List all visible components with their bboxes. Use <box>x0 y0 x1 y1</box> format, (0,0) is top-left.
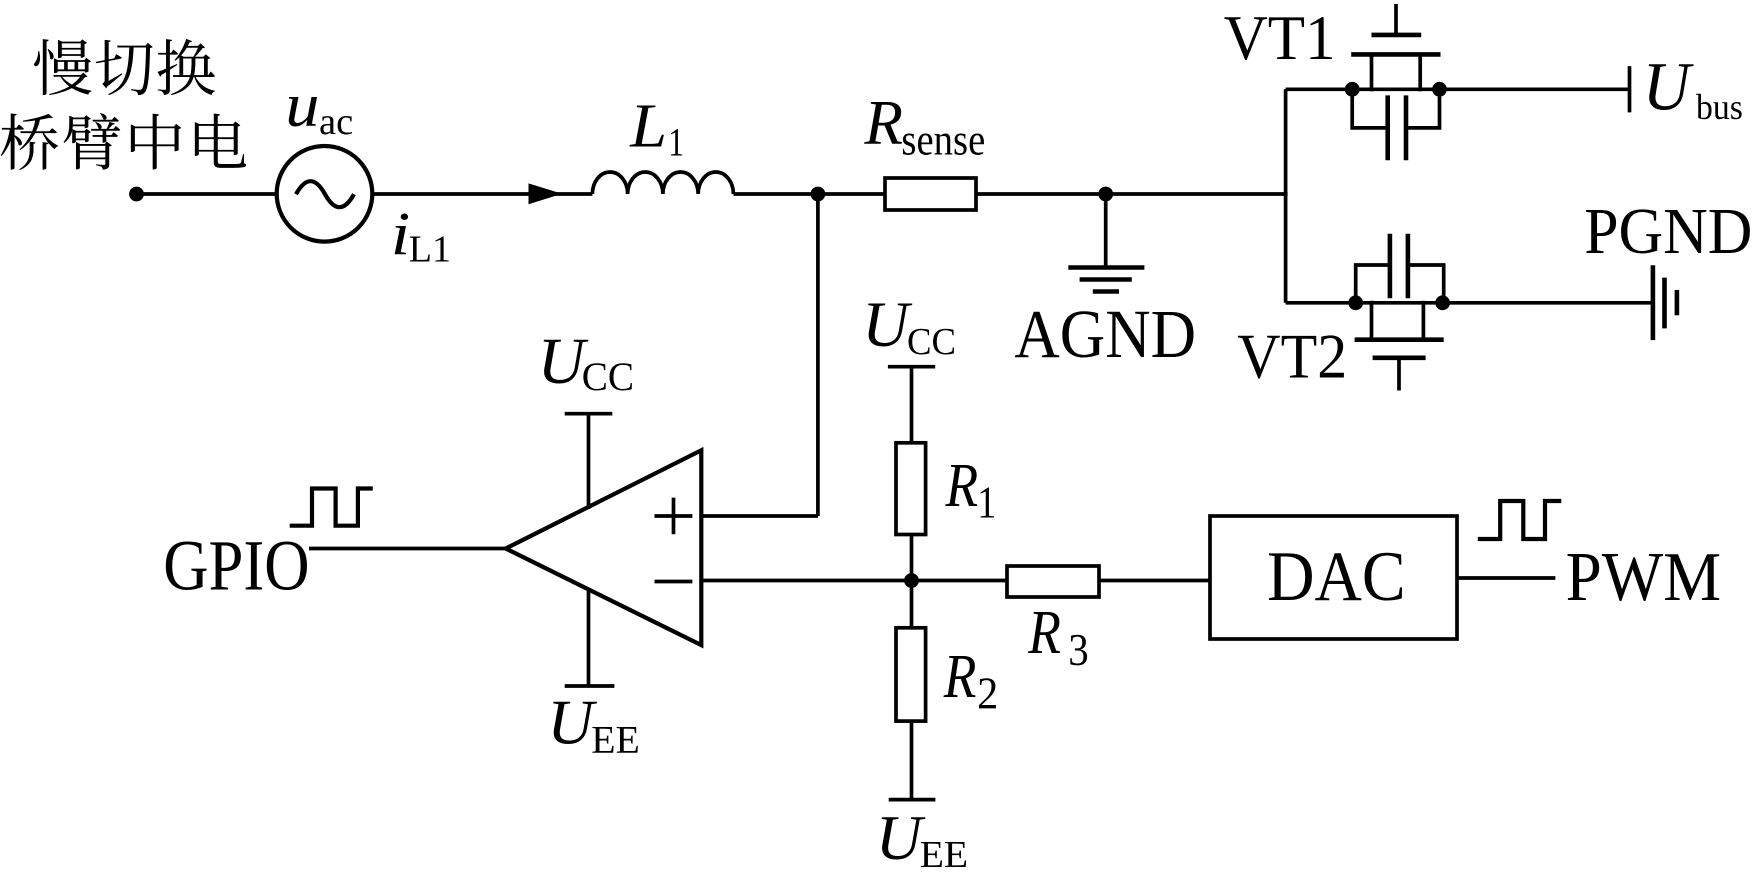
wire minus input <box>701 579 1008 583</box>
node VT2 drain dot <box>1348 295 1363 310</box>
transistor VT1 gate bar <box>1372 33 1422 38</box>
transistor VT1 gate lead <box>1394 4 1398 35</box>
op-amp comparator triangle <box>506 450 702 645</box>
svg-text:sense: sense <box>901 115 985 164</box>
svg-text:L: L <box>629 90 667 160</box>
ground AGND symbol <box>1068 268 1144 292</box>
node VT1 drain dot <box>1432 82 1447 97</box>
wire DAC output to PWM <box>1457 576 1555 580</box>
wire R3 to DAC <box>1099 579 1210 583</box>
wire node B down to AGND <box>1104 194 1108 268</box>
resistor R1 <box>896 443 926 535</box>
svg-text:3: 3 <box>1068 625 1088 676</box>
resistor R2 <box>896 628 926 721</box>
wire Rsense to bridge trunk <box>976 192 1288 196</box>
transistor VT2 source lead <box>1422 301 1426 340</box>
label Ucc op-amp <box>538 326 589 398</box>
svg-text:i: i <box>391 200 410 268</box>
svg-text:EE: EE <box>591 718 640 762</box>
wire bridge trunk vertical <box>1284 89 1288 302</box>
wire R1 to node C <box>910 535 914 628</box>
wire input to source <box>137 192 278 196</box>
svg-text:AGND: AGND <box>1014 296 1196 372</box>
svg-text:DAC: DAC <box>1267 537 1405 616</box>
label VT2 <box>1237 322 1347 392</box>
wire source to inductor <box>372 192 592 196</box>
node B junction dot <box>1098 187 1113 202</box>
label PGND <box>1584 194 1752 267</box>
transistor VT2 drain lead <box>1370 301 1374 340</box>
wire VT2 rail <box>1286 301 1652 305</box>
svg-text:R: R <box>1027 597 1061 667</box>
wire plus input <box>701 514 818 518</box>
transistor VT2 channel bar <box>1355 337 1444 342</box>
label L1 <box>629 90 667 160</box>
svg-text:CC: CC <box>582 355 634 399</box>
Ucc divider supply bar <box>888 365 935 369</box>
wire R2 to Uee bar <box>910 721 914 800</box>
transistor VT1 channel bar <box>1351 52 1440 57</box>
title char 换 <box>158 39 215 95</box>
label Ucc divider <box>862 289 913 360</box>
node input terminal dot <box>129 187 144 202</box>
resistor R3 <box>1007 566 1099 597</box>
Uee divider supply bar <box>889 798 936 802</box>
svg-text:GPIO: GPIO <box>163 526 309 606</box>
node VT1 source dot <box>1345 82 1360 97</box>
svg-text:1: 1 <box>668 120 684 164</box>
capacitor VT2 right plate <box>1406 234 1411 299</box>
title char 切 <box>96 40 153 95</box>
svg-text:CC: CC <box>907 320 956 363</box>
transistor VT2 gate bar <box>1373 355 1426 360</box>
resistor Rsense <box>885 178 976 210</box>
svg-text:U: U <box>1643 48 1695 125</box>
wire inductor to Rsense <box>733 192 886 196</box>
ground PGND symbol <box>1653 265 1677 340</box>
op-amp Uee supply lead <box>587 590 591 687</box>
capacitor VT2 left plate <box>1388 234 1393 299</box>
svg-text:L1: L1 <box>409 229 451 271</box>
svg-text:2: 2 <box>977 668 998 719</box>
PWM square wave symbol <box>1478 501 1562 539</box>
capacitor VT2 parasitic left connection <box>1356 265 1389 303</box>
inductor L1 <box>592 172 733 194</box>
current arrow i_L1 <box>529 183 563 204</box>
label i_L1 <box>391 200 410 268</box>
node A junction dot <box>811 187 826 202</box>
svg-text:U: U <box>547 687 597 758</box>
label u_ac <box>285 72 319 140</box>
label Ubus <box>1643 48 1695 125</box>
title char 电 <box>195 113 246 167</box>
label VT1 <box>1224 2 1336 74</box>
svg-text:PGND: PGND <box>1584 194 1752 267</box>
svg-text:VT1: VT1 <box>1224 2 1336 74</box>
svg-text:EE: EE <box>920 833 968 875</box>
op-amp Ucc supply lead <box>587 414 591 509</box>
transistor VT1 source lead <box>1370 54 1374 91</box>
svg-text:R: R <box>864 88 903 158</box>
wire VT1 rail <box>1286 87 1629 91</box>
capacitor VT2 parasitic right connection <box>1409 265 1444 303</box>
label DAC <box>1267 537 1405 616</box>
title char 臂 <box>64 113 121 170</box>
block DAC <box>1210 516 1457 639</box>
node C junction dot <box>904 573 919 588</box>
transistor VT2 gate lead <box>1397 358 1401 391</box>
label R3 <box>1027 597 1061 667</box>
AC source sine symbol <box>296 181 354 207</box>
label R2 <box>943 641 977 711</box>
node VT2 source dot <box>1435 295 1450 310</box>
label Uee divider <box>876 802 926 873</box>
capacitor VT1 parasitic right connection <box>1407 89 1440 128</box>
label Uee op-amp <box>547 687 597 758</box>
label Rsense <box>864 88 903 158</box>
svg-text:bus: bus <box>1696 88 1743 127</box>
wire VT1 to Ubus terminal <box>1628 66 1632 112</box>
svg-text:u: u <box>285 72 319 140</box>
title char 慢 <box>34 39 92 95</box>
title char 中 <box>131 114 181 170</box>
svg-text:PWM: PWM <box>1566 538 1722 616</box>
capacitor VT1 parasitic left connection <box>1352 89 1387 128</box>
svg-text:1: 1 <box>977 477 996 528</box>
title char 桥 <box>1 113 58 170</box>
transistor VT1 drain lead <box>1418 54 1422 91</box>
svg-text:U: U <box>876 802 926 873</box>
svg-text:VT2: VT2 <box>1237 322 1347 392</box>
svg-text:ac: ac <box>319 101 353 143</box>
svg-text:R: R <box>945 450 979 520</box>
label GPIO <box>163 526 309 606</box>
op-amp minus input marker <box>655 580 693 584</box>
wire node A down to comparator plus input <box>816 194 820 516</box>
svg-text:R: R <box>943 641 977 711</box>
svg-text:U: U <box>862 289 913 360</box>
capacitor VT1 left plate <box>1385 95 1390 160</box>
label PWM <box>1566 538 1722 616</box>
op-amp plus input marker <box>655 498 693 535</box>
GPIO square wave symbol <box>290 489 373 526</box>
wire op-amp output to GPIO <box>309 547 506 551</box>
AC source circle <box>277 146 373 242</box>
capacitor VT1 right plate <box>1404 95 1409 160</box>
wire Ucc bar to R1 <box>910 367 914 443</box>
op-amp Uee supply bar <box>565 684 615 688</box>
label AGND <box>1014 296 1196 372</box>
op-amp Ucc supply bar <box>565 412 613 416</box>
label R1 <box>945 450 979 520</box>
